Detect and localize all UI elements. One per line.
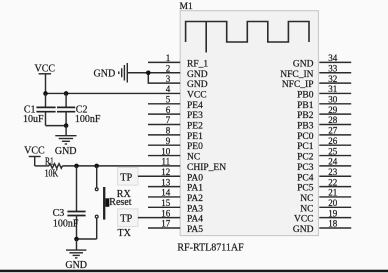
svg-text:10: 10 [161, 146, 171, 156]
svg-text:GND: GND [187, 80, 208, 90]
wire pin 8 stub [148, 134, 180, 136]
svg-text:PC4: PC4 [297, 173, 314, 183]
junction VCC/C1 [43, 91, 48, 96]
wire pin 5 stub [148, 103, 180, 105]
svg-text:13: 13 [161, 177, 171, 187]
pushbutton Reset bottom contact [95, 215, 98, 218]
svg-text:14: 14 [161, 188, 171, 198]
svg-text:10K: 10K [45, 169, 59, 180]
svg-text:TX: TX [118, 228, 132, 239]
svg-text:30: 30 [328, 95, 338, 105]
antenna feed stub [205, 22, 207, 53]
test point TP (pin 16) [118, 209, 138, 227]
svg-text:VCC: VCC [24, 146, 45, 157]
svg-text:3: 3 [166, 74, 171, 84]
svg-text:22: 22 [328, 177, 337, 187]
svg-text:PC1: PC1 [297, 142, 314, 152]
svg-text:GND: GND [55, 146, 77, 157]
pushbutton Reset top contact [95, 188, 98, 191]
sheet border line [0, 270, 388, 273]
svg-text:23: 23 [328, 167, 338, 177]
svg-text:R1: R1 [45, 156, 54, 167]
wire junction to reset top contact [96, 166, 98, 188]
svg-text:34: 34 [328, 53, 338, 63]
wire pin 22 stub [319, 186, 351, 188]
svg-text:21: 21 [328, 188, 337, 198]
svg-text:2: 2 [166, 63, 171, 73]
svg-text:PA1: PA1 [187, 184, 203, 194]
svg-text:NC: NC [300, 204, 313, 214]
svg-text:25: 25 [328, 146, 338, 156]
svg-text:PC3: PC3 [297, 163, 314, 173]
svg-text:100nF: 100nF [53, 219, 79, 230]
svg-text:11: 11 [162, 157, 171, 167]
resistor R1 [49, 164, 63, 169]
pushbutton Reset knob [105, 198, 109, 207]
wire pin 15 stub [148, 206, 180, 208]
svg-text:20: 20 [328, 198, 338, 208]
antenna meander inside module [186, 22, 309, 43]
wire pin 25 stub [319, 155, 351, 157]
svg-text:18: 18 [328, 219, 338, 229]
svg-text:NC: NC [300, 194, 313, 204]
module M1 body [180, 11, 318, 236]
wire pin 20 stub [319, 206, 351, 208]
ground symbol rotated (pins 2/3) [118, 71, 120, 74]
wire pin 13 stub [148, 186, 180, 188]
ground symbol (reset) [76, 239, 78, 250]
svg-text:PE3: PE3 [187, 111, 203, 121]
svg-text:PC5: PC5 [297, 184, 314, 194]
wire pin 33 stub [319, 72, 351, 74]
wire TP to pin 16 [138, 217, 180, 219]
svg-text:PB0: PB0 [297, 90, 314, 100]
wire pin 24 stub [319, 165, 351, 167]
capacitor C1 [45, 93, 47, 107]
svg-text:PE2: PE2 [187, 122, 203, 132]
test point TP (pin 12) [118, 168, 138, 186]
wire pin 27 stub [319, 134, 351, 136]
svg-text:NFC_IN: NFC_IN [280, 70, 313, 80]
svg-text:8: 8 [166, 126, 171, 136]
svg-text:TP: TP [120, 172, 132, 183]
wire pin 23 stub [319, 175, 351, 177]
svg-text:GND: GND [293, 59, 314, 69]
svg-text:NFC_IP: NFC_IP [282, 80, 314, 90]
svg-text:100nF: 100nF [75, 114, 101, 125]
pushbutton Reset actuator bar [103, 187, 105, 220]
svg-text:GND: GND [293, 225, 314, 235]
svg-text:24: 24 [328, 157, 338, 167]
junction C3 top [74, 164, 79, 169]
wire C1 to C2 bottom [46, 125, 67, 127]
svg-text:28: 28 [328, 115, 338, 125]
wire pin 10 stub [148, 155, 180, 157]
wire pin 31 stub [319, 92, 351, 94]
svg-text:PA5: PA5 [187, 225, 203, 235]
svg-text:GND: GND [65, 260, 87, 271]
wire pin 19 stub [319, 217, 351, 219]
wire VCC to pin 4 [46, 92, 181, 94]
svg-text:33: 33 [328, 63, 338, 73]
wire TP to pin 12 [138, 175, 180, 177]
svg-text:PC2: PC2 [297, 153, 314, 163]
svg-text:PE1: PE1 [187, 132, 203, 142]
wire reset bottom lead [96, 218, 98, 239]
svg-text:PB2: PB2 [297, 111, 314, 121]
wire pin 30 stub [319, 103, 351, 105]
svg-text:1: 1 [166, 53, 171, 63]
svg-text:PB3: PB3 [297, 122, 314, 132]
svg-text:5: 5 [166, 95, 171, 105]
svg-text:32: 32 [328, 74, 337, 84]
svg-text:VCC: VCC [35, 64, 56, 75]
svg-text:C3: C3 [53, 208, 65, 219]
svg-text:9: 9 [166, 136, 171, 146]
wire pin 9 stub [148, 144, 180, 146]
svg-text:CHIP_EN: CHIP_EN [187, 163, 226, 173]
wire pin 7 stub [148, 124, 180, 126]
capacitor C3 [76, 166, 78, 212]
svg-text:TP: TP [120, 214, 132, 225]
svg-text:PA0: PA0 [187, 173, 203, 183]
svg-text:RF_1: RF_1 [187, 59, 208, 69]
wire pin 28 stub [319, 124, 351, 126]
wire pin 18 stub [319, 227, 351, 229]
wire pin 32 stub [319, 82, 351, 84]
junction C2 top [64, 91, 69, 96]
svg-text:12: 12 [161, 167, 170, 177]
svg-text:27: 27 [328, 126, 338, 136]
wire pin 29 stub [319, 113, 351, 115]
svg-text:19: 19 [328, 208, 338, 218]
svg-text:M1: M1 [180, 2, 193, 12]
svg-text:15: 15 [161, 198, 171, 208]
wire branch to pin 3 [148, 73, 180, 83]
svg-text:PE0: PE0 [187, 142, 203, 152]
svg-text:RX: RX [117, 189, 132, 200]
svg-text:VCC: VCC [187, 90, 207, 100]
junction C2 bottom [64, 123, 69, 128]
junction C3/ground [74, 237, 79, 242]
ground symbol (C1/C2) [65, 126, 67, 136]
wire pin 21 stub [319, 196, 351, 198]
svg-text:GND: GND [187, 70, 208, 80]
svg-text:PB1: PB1 [297, 101, 314, 111]
svg-text:10uF: 10uF [23, 114, 44, 125]
svg-text:16: 16 [161, 208, 171, 218]
wire R1 to CHIP_EN pin 11 [62, 165, 180, 167]
wire pin 26 stub [319, 144, 351, 146]
svg-text:4: 4 [166, 84, 171, 94]
wire pin 34 stub [319, 61, 351, 63]
svg-text:PA4: PA4 [187, 215, 203, 225]
svg-text:GND: GND [94, 69, 116, 80]
svg-text:VCC: VCC [294, 215, 314, 225]
svg-text:PE4: PE4 [187, 101, 203, 111]
svg-text:7: 7 [166, 115, 171, 125]
svg-text:PA3: PA3 [187, 204, 203, 214]
svg-text:29: 29 [328, 105, 338, 115]
wire pin 6 stub [148, 113, 180, 115]
svg-text:NC: NC [187, 153, 200, 163]
junction reset top [94, 164, 99, 169]
svg-text:17: 17 [161, 219, 171, 229]
wire VCC to R1 [35, 165, 49, 167]
wire pin 1 stub [148, 61, 180, 63]
svg-text:31: 31 [328, 84, 337, 94]
wire C3 bottom to reset bottom [77, 238, 97, 240]
svg-text:PA2: PA2 [187, 194, 203, 204]
wire ground to pin 2 [127, 72, 180, 74]
wire pin 17 stub [148, 227, 180, 229]
junction pins 2/3 [146, 70, 151, 75]
svg-text:PC0: PC0 [297, 132, 314, 142]
capacitor C2 [65, 93, 67, 107]
svg-text:RF-RTL8711AF: RF-RTL8711AF [177, 243, 244, 254]
svg-text:6: 6 [166, 105, 171, 115]
wire pin 14 stub [148, 196, 180, 198]
svg-text:26: 26 [328, 136, 338, 146]
